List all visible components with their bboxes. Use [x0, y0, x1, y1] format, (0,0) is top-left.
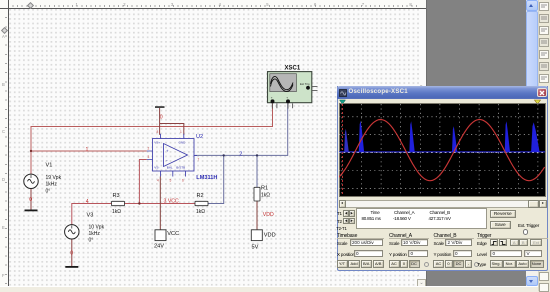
- svg-text:10 Vpk: 10 Vpk: [89, 224, 105, 230]
- svg-text:0: 0: [160, 114, 163, 120]
- svg-text:2: 2: [239, 151, 242, 157]
- svg-text:VDD: VDD: [264, 233, 276, 239]
- svg-text:+: +: [286, 96, 288, 100]
- svg-text:0°: 0°: [89, 238, 94, 244]
- svg-text:1: 1: [180, 130, 182, 134]
- svg-text:5V: 5V: [252, 245, 259, 251]
- svg-text:U2: U2: [196, 134, 203, 140]
- svg-text:7: 7: [198, 158, 200, 162]
- svg-text:+: +: [166, 149, 169, 154]
- svg-text:1kHz: 1kHz: [89, 231, 101, 237]
- svg-text:1kΩ: 1kΩ: [261, 192, 270, 198]
- svg-text:VS+: VS+: [154, 140, 160, 144]
- svg-text:0°: 0°: [46, 188, 51, 194]
- svg-text:-: -: [166, 158, 168, 164]
- svg-text:2: 2: [148, 147, 150, 151]
- svg-text:1kΩ: 1kΩ: [196, 209, 205, 215]
- svg-text:24V: 24V: [154, 243, 164, 249]
- svg-text:GND: GND: [179, 140, 187, 144]
- svg-text:VDD: VDD: [263, 212, 274, 218]
- svg-text:1: 1: [86, 147, 89, 153]
- svg-text:1kΩ: 1kΩ: [112, 209, 121, 215]
- svg-text:LM311H: LM311H: [196, 175, 217, 181]
- svg-text:3: 3: [148, 155, 150, 159]
- svg-text:8: 8: [157, 130, 159, 134]
- svg-text:VS-: VS-: [154, 166, 159, 170]
- svg-text:6: 6: [182, 179, 184, 183]
- svg-text:4: 4: [86, 199, 89, 205]
- svg-text:B/STB: B/STB: [176, 166, 185, 170]
- svg-text:VCC: VCC: [167, 231, 179, 237]
- svg-text:+: +: [271, 96, 273, 100]
- svg-text:19 Vpk: 19 Vpk: [46, 175, 62, 181]
- svg-text:BAL: BAL: [167, 166, 173, 170]
- svg-text:5: 5: [170, 179, 172, 183]
- svg-text:Ext Trig: Ext Trig: [300, 82, 310, 86]
- svg-text:V1: V1: [46, 163, 53, 169]
- svg-text:3 VCC: 3 VCC: [164, 198, 180, 204]
- svg-text:V3: V3: [87, 213, 94, 219]
- svg-text:R2: R2: [197, 193, 204, 199]
- svg-text:R3: R3: [113, 193, 120, 199]
- svg-text:0: 0: [70, 250, 73, 256]
- svg-text:4: 4: [157, 179, 159, 183]
- svg-text:0: 0: [29, 197, 32, 203]
- svg-text:XSC1: XSC1: [285, 66, 301, 72]
- svg-text:R1: R1: [261, 186, 268, 192]
- svg-text:1kHz: 1kHz: [46, 182, 58, 188]
